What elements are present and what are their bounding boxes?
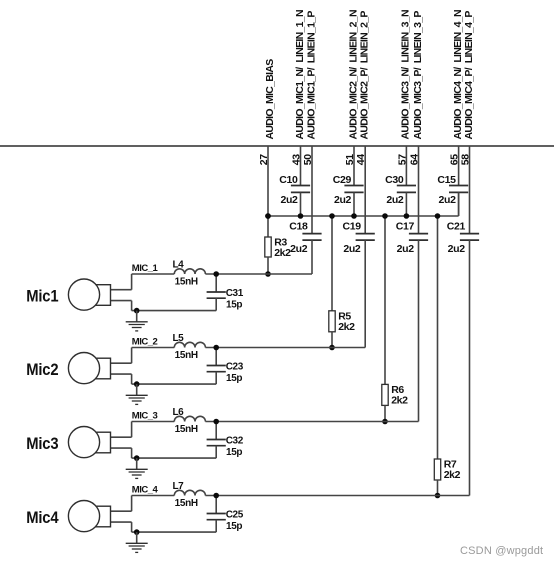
svg-text:AUDIO_MIC1_P/ LINEIN_1_P: AUDIO_MIC1_P/ LINEIN_1_P: [305, 11, 317, 140]
svg-text:AUDIO_MIC1_N/ LINEIN_1_N: AUDIO_MIC1_N/ LINEIN_1_N: [294, 10, 306, 139]
svg-text:15nH: 15nH: [175, 424, 198, 435]
svg-text:CSDN @wpgddt: CSDN @wpgddt: [460, 545, 543, 557]
svg-text:C15: C15: [437, 174, 456, 186]
svg-text:Mic4: Mic4: [26, 509, 58, 527]
svg-text:2k2: 2k2: [391, 395, 408, 407]
svg-text:Mic2: Mic2: [26, 361, 58, 379]
svg-text:15nH: 15nH: [175, 277, 198, 288]
svg-text:C31: C31: [226, 288, 244, 299]
svg-text:Mic1: Mic1: [26, 288, 58, 306]
svg-text:2u2: 2u2: [448, 243, 466, 255]
svg-text:MIC_3: MIC_3: [132, 411, 158, 422]
svg-text:15p: 15p: [226, 373, 242, 384]
svg-text:2u2: 2u2: [334, 194, 352, 206]
svg-text:L7: L7: [173, 481, 185, 492]
svg-text:2k2: 2k2: [274, 247, 291, 259]
svg-text:AUDIO_MIC3_N/ LINEIN_3_N: AUDIO_MIC3_N/ LINEIN_3_N: [400, 10, 412, 139]
svg-text:2k2: 2k2: [444, 469, 461, 481]
svg-text:15nH: 15nH: [175, 350, 198, 361]
svg-text:L5: L5: [173, 333, 185, 344]
svg-text:C10: C10: [279, 174, 298, 186]
svg-text:15p: 15p: [226, 447, 242, 458]
svg-text:C23: C23: [226, 362, 244, 373]
svg-text:AUDIO_MIC4_P/ LINEIN_4_P: AUDIO_MIC4_P/ LINEIN_4_P: [463, 11, 475, 140]
svg-text:2u2: 2u2: [343, 243, 361, 255]
svg-text:AUDIO_MIC2_P/ LINEIN_2_P: AUDIO_MIC2_P/ LINEIN_2_P: [359, 11, 371, 140]
svg-text:C17: C17: [396, 221, 415, 233]
svg-text:2u2: 2u2: [290, 243, 308, 255]
svg-text:15p: 15p: [226, 521, 242, 532]
svg-text:2u2: 2u2: [386, 194, 404, 206]
svg-text:AUDIO_MIC_BIAS: AUDIO_MIC_BIAS: [264, 59, 276, 140]
svg-text:AUDIO_MIC2_N/ LINEIN_2_N: AUDIO_MIC2_N/ LINEIN_2_N: [347, 10, 359, 139]
svg-text:15p: 15p: [226, 299, 242, 310]
svg-text:MIC_4: MIC_4: [132, 485, 159, 496]
svg-text:L6: L6: [173, 407, 185, 418]
svg-text:C32: C32: [226, 436, 244, 447]
svg-text:AUDIO_MIC3_P/ LINEIN_3_P: AUDIO_MIC3_P/ LINEIN_3_P: [412, 11, 424, 140]
svg-text:Mic3: Mic3: [26, 435, 58, 453]
svg-text:C29: C29: [333, 174, 352, 186]
svg-text:2u2: 2u2: [397, 243, 415, 255]
svg-text:2u2: 2u2: [280, 194, 298, 206]
svg-text:2k2: 2k2: [338, 321, 355, 333]
svg-text:C18: C18: [289, 221, 308, 233]
svg-text:C19: C19: [342, 221, 361, 233]
svg-text:MIC_2: MIC_2: [132, 337, 158, 348]
svg-text:C25: C25: [226, 510, 244, 521]
svg-text:MIC_1: MIC_1: [132, 263, 159, 274]
svg-text:15nH: 15nH: [175, 498, 198, 509]
svg-text:2u2: 2u2: [439, 194, 457, 206]
svg-text:C30: C30: [385, 174, 404, 186]
svg-text:L4: L4: [173, 260, 185, 271]
svg-text:C21: C21: [447, 221, 466, 233]
